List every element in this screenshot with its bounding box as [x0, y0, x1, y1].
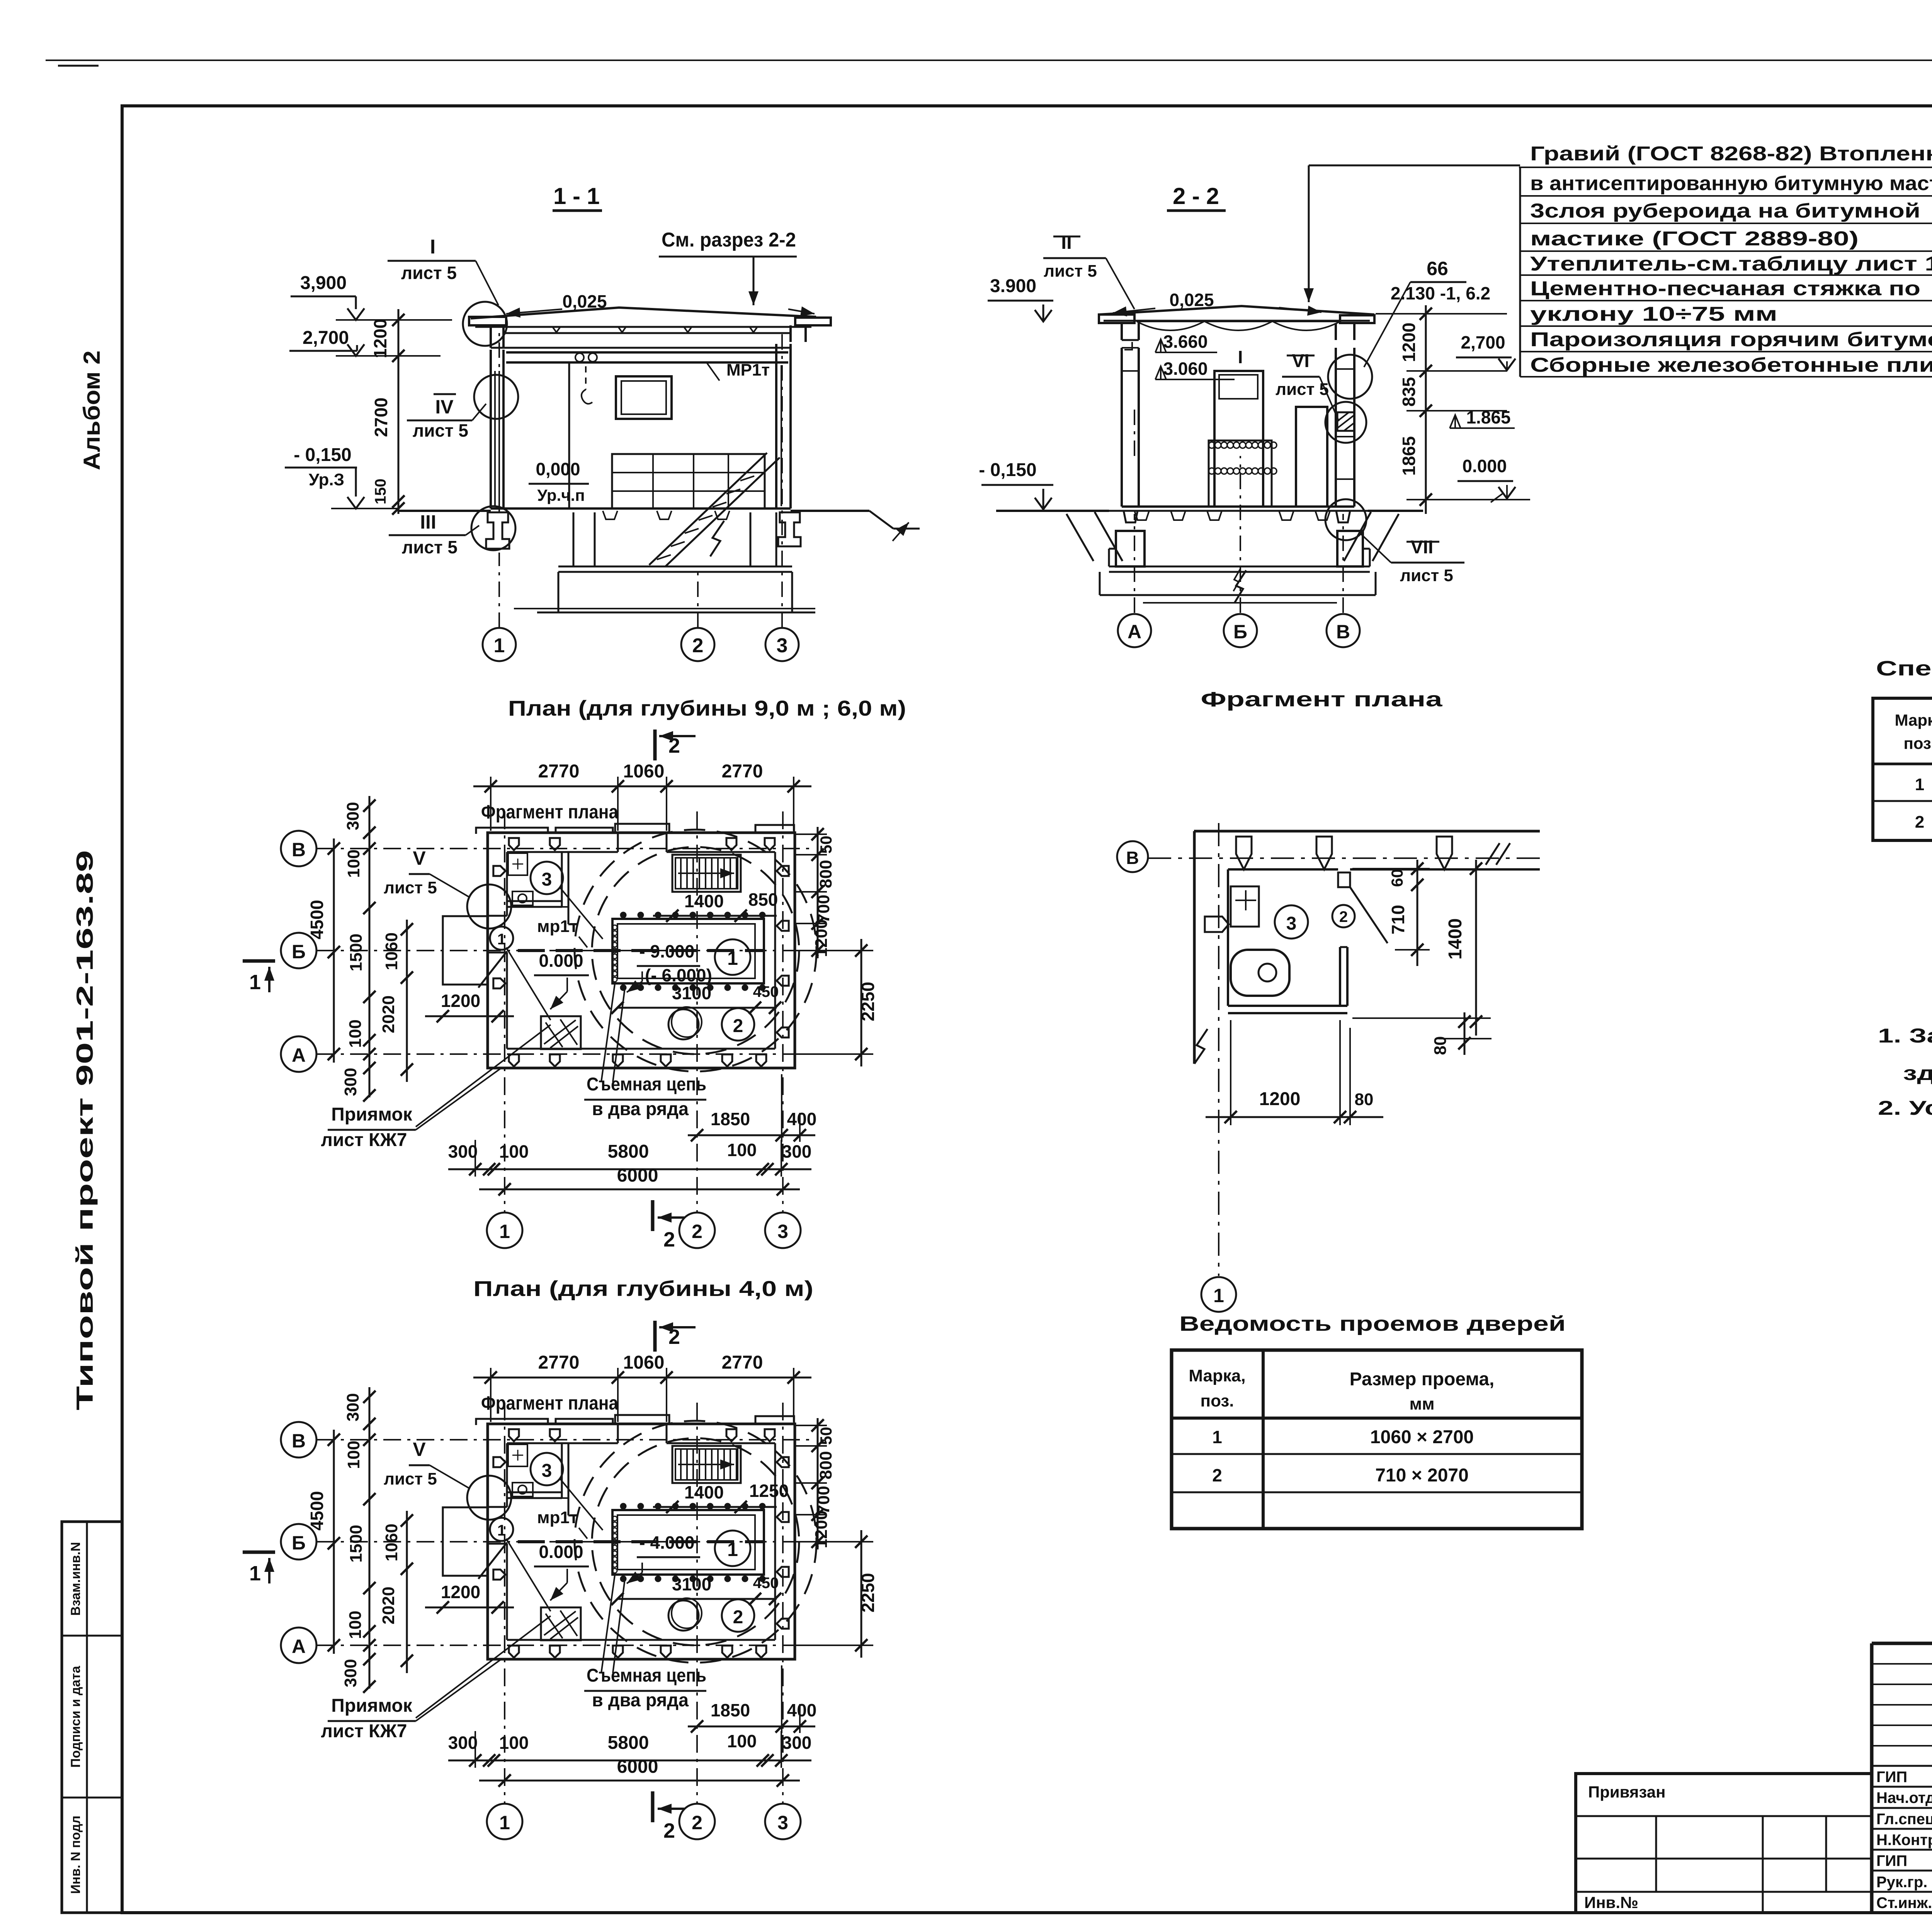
plan1 pit bolts top	[621, 912, 626, 918]
plan1 electro box	[541, 1016, 581, 1049]
svg-text:мм: мм	[1409, 1395, 1434, 1413]
svg-text:Утеплитель-см.таблицу лист 1: Утеплитель-см.таблицу лист 1	[1530, 253, 1932, 275]
plan2 door 1 leaf	[478, 1543, 507, 1579]
s11 basement ground	[514, 608, 815, 609]
svg-text:300: 300	[448, 1733, 478, 1753]
svg-text:лист КЖ7: лист КЖ7	[321, 1721, 407, 1742]
svg-text:1200: 1200	[812, 919, 831, 957]
svg-text:1850: 1850	[711, 1700, 750, 1720]
frag axis V	[1148, 857, 1540, 859]
plan2 cabin partition	[561, 1443, 563, 1498]
plan2 shaft circle outer	[575, 1421, 816, 1663]
svg-text:1250: 1250	[749, 1481, 789, 1501]
s22 pit bottom	[1109, 566, 1370, 568]
svg-text:Спецификация элементов запол: Спецификация элементов заполнения дверны…	[1876, 657, 1932, 680]
plan1 door 1 leaf	[478, 951, 507, 988]
frag dim ext bottom	[1230, 1020, 1231, 1125]
plan2 room circle 3	[531, 1453, 563, 1485]
roof layers note rule 5	[1520, 274, 1932, 276]
svg-text:Ст.инж.: Ст.инж.	[1876, 1895, 1932, 1912]
s11 window	[616, 376, 672, 419]
plan1 dim bottom ext	[474, 1140, 476, 1177]
svg-text:2,700: 2,700	[303, 328, 349, 348]
svg-text:2250: 2250	[858, 1573, 878, 1612]
svg-text:2: 2	[1212, 1465, 1222, 1485]
s11 callout circle I	[463, 302, 507, 346]
s22 leader 66	[1364, 282, 1410, 367]
frag cabin partition	[1339, 947, 1341, 1006]
plan2 manhole	[668, 1600, 699, 1631]
plan1 chain leader	[601, 981, 615, 1082]
svg-text:Б: Б	[292, 941, 306, 963]
svg-text:2: 2	[692, 1812, 702, 1833]
svg-text:МР1т: МР1т	[726, 361, 770, 379]
svg-text:в два ряда: в два ряда	[592, 1690, 689, 1711]
svg-text:1: 1	[497, 931, 506, 948]
plan1 top door jambs	[617, 833, 619, 852]
plan1 sink	[508, 853, 527, 875]
svg-text:в два ряда: в два ряда	[592, 1099, 689, 1119]
s11 roof drip notches	[553, 327, 560, 332]
frag axis circle V	[1117, 841, 1148, 872]
plan1 axis V line	[317, 848, 811, 849]
plan1 axis circle 1	[487, 1213, 522, 1248]
svg-text:3: 3	[542, 1461, 552, 1481]
svg-text:Инв.№: Инв.№	[1584, 1893, 1638, 1912]
svg-text:См. разрез 2-2: См. разрез 2-2	[662, 229, 796, 251]
plan1 dim 1850 ext	[781, 1074, 782, 1142]
svg-text:1200: 1200	[1259, 1089, 1301, 1109]
s11 ceiling slab	[503, 332, 791, 334]
plan2 vent mark bottom x1882	[722, 1646, 732, 1658]
s22 left overhang	[1099, 315, 1134, 323]
s22 axis line A	[1134, 514, 1135, 613]
plan1 porch	[443, 916, 488, 985]
svg-text:2770: 2770	[722, 1352, 763, 1373]
frag left wall break	[1194, 1029, 1207, 1064]
plan2 dim 1850 line	[688, 1726, 815, 1728]
plan1 axis A line	[317, 1053, 811, 1055]
plan1 stair inner	[675, 858, 738, 889]
svg-text:Ведомость проемов дверей: Ведомость проемов дверей	[1179, 1312, 1566, 1335]
svg-text:1. За условную отметку 0,000: 1. За условную отметку 0,000 принят уров…	[1878, 1025, 1932, 1047]
svg-text:Приямок: Приямок	[331, 1104, 413, 1125]
svg-text:3: 3	[542, 869, 552, 890]
plan1 pit outer	[612, 919, 764, 983]
plan2 cut flag 1 left	[243, 1551, 275, 1554]
plan1 fragment bracket	[476, 828, 548, 834]
svg-text:400: 400	[787, 1109, 817, 1129]
scan top edge line	[46, 60, 1932, 61]
plan1 dim top ext	[490, 777, 492, 831]
svg-text:1: 1	[497, 1522, 506, 1539]
svg-text:VII: VII	[1411, 537, 1434, 558]
s11 pit right wall	[750, 512, 752, 566]
svg-text:1060: 1060	[382, 1524, 401, 1561]
frag dim 710/60 line	[1417, 860, 1418, 966]
svg-text:450: 450	[753, 983, 779, 1000]
svg-text:Привязан: Привязан	[1588, 1783, 1665, 1801]
svg-text:2: 2	[1915, 813, 1924, 832]
plan2 cut flag 2 bottom	[651, 1791, 655, 1822]
frag axis circle 1	[1201, 1277, 1236, 1312]
s22 ground line right	[1368, 510, 1423, 512]
svg-text:поз.: поз.	[1903, 734, 1932, 752]
svg-text:300: 300	[341, 1659, 360, 1687]
svg-text:710: 710	[1388, 905, 1408, 935]
svg-text:2020: 2020	[379, 1587, 398, 1624]
plan1 hatch leader from 3	[560, 888, 603, 939]
plan2 fragment bracket	[476, 1419, 548, 1425]
s22 level 3660	[1155, 339, 1166, 352]
svg-text:3: 3	[777, 1221, 788, 1242]
svg-text:мр1т: мр1т	[537, 1508, 578, 1527]
svg-text:5800: 5800	[608, 1733, 649, 1753]
plan2 inner wall bottom	[507, 1639, 775, 1641]
roof layers note rule 3	[1520, 223, 1932, 224]
svg-text:1: 1	[499, 1812, 510, 1833]
frag room 3	[1275, 905, 1308, 939]
plan1 top right protrusion	[755, 825, 794, 833]
plan2 toilet	[512, 1483, 533, 1497]
svg-text:1060: 1060	[623, 761, 665, 782]
plan1 vent mark top x1893	[726, 838, 736, 850]
svg-text:Съемная цепь: Съемная цепь	[587, 1074, 706, 1095]
frag vent mark left	[1205, 917, 1229, 932]
plan2 vent mark bottom x1970	[756, 1646, 766, 1658]
plan2 monorail	[518, 1540, 764, 1543]
s11 right wall	[775, 344, 777, 509]
frag wall break right	[1486, 843, 1510, 865]
svg-text:3,900: 3,900	[300, 273, 347, 293]
svg-text:2: 2	[733, 1607, 743, 1628]
plan1 vent mark right y2254	[777, 866, 789, 876]
svg-text:1850: 1850	[711, 1109, 750, 1129]
s11 callout circle IV	[474, 375, 518, 419]
svg-text:Съемная цепь: Съемная цепь	[587, 1665, 706, 1686]
s22 base bottom	[1100, 594, 1376, 596]
svg-text:80: 80	[1355, 1090, 1374, 1109]
roof layers note rule 7	[1520, 325, 1932, 327]
s11 hoist chain	[585, 366, 587, 389]
s11 floor line	[491, 507, 791, 510]
plan1 vent mark bottom x1599	[613, 1054, 623, 1066]
svg-text:5800: 5800	[608, 1141, 649, 1162]
s11 roof bottom	[475, 326, 811, 328]
svg-text:в антисептированную битумную м: в антисептированную битумную мастику-10	[1530, 172, 1932, 195]
svg-text:В: В	[292, 839, 306, 861]
plan1 vent mark left 1	[493, 866, 505, 876]
roof layers note rule 6	[1520, 300, 1932, 301]
plan2 porch	[443, 1507, 488, 1576]
s22 ground line left	[996, 510, 1109, 512]
s22 level 1865	[1450, 415, 1461, 428]
svg-text:Н.Контр: Н.Контр	[1876, 1832, 1932, 1849]
frag dim 1200 line	[1206, 1116, 1383, 1118]
svg-text:2250: 2250	[858, 982, 878, 1021]
plan2 axis 3 line	[782, 1403, 784, 1803]
plan2 hatch leader from 3	[560, 1479, 603, 1530]
plan2 vent mark top x1436	[550, 1429, 560, 1441]
title block outer	[1872, 1643, 1932, 1913]
s22 ground slab	[1109, 510, 1368, 512]
svg-text:(- 6.000): (- 6.000)	[645, 965, 712, 985]
plan1 pit bolts bottom	[621, 985, 626, 990]
vedomost col line	[1262, 1350, 1265, 1529]
s11 axis line 2	[697, 568, 699, 628]
svg-text:ГИП: ГИП	[1876, 1769, 1907, 1786]
svg-text:I: I	[1238, 347, 1243, 367]
roof note leader	[1309, 165, 1520, 167]
plan1 dim left line 3	[406, 920, 408, 1082]
s11 base slab	[558, 572, 560, 612]
plan2 vent mark right y2672	[777, 1619, 789, 1629]
svg-text:1200: 1200	[441, 1582, 480, 1602]
svg-text:II: II	[1061, 231, 1072, 253]
svg-text:Рук.гр.: Рук.гр.	[1876, 1874, 1927, 1891]
svg-text:3: 3	[1286, 913, 1297, 934]
svg-text:50: 50	[817, 1427, 835, 1445]
title block pривязан box	[1576, 1774, 1872, 1913]
s11 ladder break mark	[710, 521, 724, 556]
svg-text:лист КЖ7: лист КЖ7	[321, 1130, 407, 1150]
svg-text:Б: Б	[1233, 621, 1247, 643]
frag top wall inner	[1228, 868, 1338, 871]
s22 foundation right	[1337, 531, 1363, 566]
svg-text:Приямок: Приямок	[331, 1696, 413, 1716]
svg-text:План (для глубины 9,0 м ; 6,0: План (для глубины 9,0 м ; 6,0 м)	[508, 696, 906, 720]
svg-text:0.000: 0.000	[1462, 456, 1507, 476]
s22 door	[1296, 407, 1327, 507]
svg-text:1 - 1: 1 - 1	[553, 183, 600, 209]
svg-text:2: 2	[692, 634, 704, 657]
svg-text:Фрагмент плана: Фрагмент плана	[481, 1392, 619, 1414]
specification table frame	[1873, 698, 1932, 840]
plan1 cut flag 1 left	[243, 959, 275, 963]
plan2 vent mark right y2254	[777, 1457, 789, 1467]
svg-text:0,000: 0,000	[536, 459, 580, 479]
plan1 dim 1850 line	[688, 1134, 815, 1136]
plan1 axis circle B	[281, 933, 316, 968]
svg-text:1: 1	[499, 1221, 510, 1242]
svg-text:1: 1	[494, 634, 505, 657]
plan2 inner wall right	[774, 1443, 776, 1640]
s22 bank right	[1344, 512, 1371, 561]
svg-text:лист 5: лист 5	[384, 878, 437, 897]
s11 crane beam	[506, 351, 788, 354]
s22 left foot tee	[1124, 511, 1138, 522]
frag dim ext right	[1352, 1017, 1491, 1019]
svg-text:Марка,: Марка,	[1189, 1366, 1245, 1385]
plan2 dim left line 1	[333, 1430, 335, 1654]
plan1 priyamok leader	[416, 1025, 551, 1127]
svg-text:3: 3	[777, 1812, 788, 1833]
frag vent mark top 2	[1316, 837, 1332, 869]
svg-text:0.000: 0.000	[539, 1542, 583, 1562]
plan1 vent mark left 2	[493, 978, 505, 988]
plan1 machine circle 1	[715, 939, 750, 975]
s11 axis line 3	[781, 332, 783, 628]
svg-text:1500: 1500	[347, 934, 366, 971]
plan2 stair inner	[675, 1449, 738, 1480]
plan2 dim 3100 line	[617, 1598, 777, 1600]
svg-text:А: А	[292, 1636, 306, 1657]
svg-text:1060 × 2700: 1060 × 2700	[1370, 1427, 1474, 1447]
plan1 dim right line 2	[861, 939, 862, 1066]
svg-text:Марка: Марка	[1895, 711, 1932, 729]
svg-text:1: 1	[249, 971, 261, 994]
tb col lines	[1871, 1643, 1873, 1913]
plan1 dim 3100 line	[617, 1007, 777, 1009]
s22 floor feet	[1134, 511, 1149, 520]
plan2 axis 1 line	[504, 1403, 505, 1803]
svg-text:1500: 1500	[347, 1525, 366, 1563]
plan1 axis 3 line	[782, 811, 784, 1212]
svg-text:3100: 3100	[672, 1574, 711, 1594]
s11 equipment block	[612, 454, 765, 509]
s22 right wall	[1335, 348, 1337, 507]
svg-text:Размер проема,: Размер проема,	[1350, 1369, 1495, 1389]
roof layers note rule 2	[1520, 195, 1932, 197]
svg-text:- 9.000: - 9.000	[639, 941, 694, 961]
s22 axis line B	[1240, 456, 1241, 613]
plan2 dim bottom ext	[474, 1731, 476, 1768]
roof layers note rule 9	[1520, 376, 1932, 378]
plan2 door 1 leader	[506, 1539, 551, 1611]
svg-text:2020: 2020	[379, 995, 398, 1033]
svg-text:1: 1	[727, 1539, 738, 1560]
s22 slope arrow right	[1279, 308, 1321, 312]
plan1 dim right line 1	[817, 827, 819, 958]
svg-text:здания, что соответствует абс: здания, что соответствует абсолютной отм…	[1903, 1062, 1932, 1085]
plan2 axis A line	[317, 1645, 811, 1646]
plan1 vent mark bottom x1436	[550, 1054, 560, 1066]
plan1 vent mark right y2538	[777, 976, 789, 986]
svg-text:1060: 1060	[623, 1352, 665, 1373]
svg-text:850: 850	[748, 889, 778, 910]
s22 roof bottom	[1104, 320, 1370, 322]
plan2 dim right ticks 1	[811, 1419, 824, 1432]
s11 slope arrow right	[788, 309, 815, 314]
svg-text:лист 5: лист 5	[1044, 262, 1097, 281]
plan1 cut flag 2 bottom	[651, 1200, 655, 1231]
frag toilet	[1231, 950, 1289, 996]
vedomost row rule 2	[1172, 1492, 1582, 1493]
svg-text:мастике (ГОСТ 2889-80): мастике (ГОСТ 2889-80)	[1530, 228, 1859, 250]
svg-text:В: В	[292, 1430, 306, 1452]
s22 dim ext lines	[1376, 313, 1507, 315]
svg-text:0,025: 0,025	[1169, 290, 1214, 310]
frag door jamb	[1338, 872, 1350, 887]
vedomost header rule	[1172, 1417, 1582, 1420]
svg-text:Ур.З: Ур.З	[309, 470, 344, 489]
s22 slope arrow left	[1113, 308, 1155, 313]
frag vent mark top 3	[1437, 837, 1452, 869]
plan1 toilet	[512, 891, 533, 905]
s22 foundation left	[1116, 531, 1145, 566]
plan1 cabin wall bottom	[507, 900, 562, 902]
svg-text:А: А	[1128, 621, 1141, 643]
svg-text:4500: 4500	[307, 1491, 327, 1531]
frag left wall inner	[1227, 869, 1229, 1006]
s22 dim line vertical	[1425, 305, 1427, 514]
svg-text:1200: 1200	[812, 1510, 831, 1548]
svg-text:710 × 2070: 710 × 2070	[1375, 1465, 1469, 1486]
svg-text:100: 100	[346, 1019, 365, 1048]
svg-text:1400: 1400	[1445, 918, 1466, 960]
svg-text:План (для глубины 4,0 м): План (для глубины 4,0 м)	[473, 1276, 813, 1301]
plan2 vent mark top x1893	[726, 1429, 736, 1441]
plan2 pit chain left	[612, 1516, 617, 1521]
plan2 dim top ticks	[485, 1371, 497, 1384]
svg-text:1400: 1400	[684, 891, 724, 911]
plan1 dim right ext	[796, 833, 827, 835]
s22 axis circle A	[1118, 614, 1151, 647]
roof layers note block left edge	[1519, 167, 1521, 377]
plan2 dim top line	[473, 1377, 811, 1379]
svg-text:66: 66	[1427, 258, 1448, 279]
svg-text:3100: 3100	[672, 983, 711, 1003]
s11 axis circle 1	[483, 628, 516, 661]
svg-text:1: 1	[1212, 1427, 1222, 1447]
plan2 vent mark right y2396	[777, 1512, 789, 1522]
plan1 inner wall left	[506, 852, 508, 916]
s11 right footing	[778, 512, 801, 546]
s22 left wall	[1121, 348, 1123, 507]
plan1 inner wall right	[774, 852, 776, 1049]
s22 roof vaults	[1137, 321, 1204, 330]
s11 axis circle 3	[765, 628, 799, 661]
plan1 vent mark top x1436	[550, 838, 560, 850]
privyazan row lines	[1576, 1815, 1872, 1817]
svg-text:450: 450	[753, 1575, 779, 1592]
svg-text:1.865: 1.865	[1466, 407, 1510, 427]
svg-text:Б: Б	[292, 1532, 306, 1554]
plan2 vent mark left 1	[493, 1457, 505, 1467]
plan1 axis circle 2	[679, 1213, 715, 1248]
plan2 left door jambs	[488, 1506, 507, 1508]
frag cabin wall bottom	[1228, 1005, 1347, 1007]
frag vent mark top 1	[1236, 837, 1252, 869]
s11 left parapet	[469, 317, 506, 325]
svg-text:2: 2	[733, 1016, 743, 1036]
plan2 shaft circle inner	[592, 1438, 799, 1645]
plan1 monorail	[518, 949, 764, 952]
s22 roof vault line	[1137, 321, 1340, 322]
plan2 axis circle 2	[679, 1804, 715, 1839]
s22 vent shaft	[1214, 371, 1263, 507]
plan1 dim bottom ticks	[469, 1163, 481, 1175]
s22 dim ticks	[1420, 308, 1432, 320]
plan2 cut flag 2 top	[653, 1321, 657, 1352]
svg-text:А: А	[292, 1044, 306, 1066]
plan1 outer wall	[488, 833, 795, 1068]
plan1 pit chain left	[612, 925, 617, 930]
svg-text:300: 300	[344, 1393, 362, 1421]
see section 2-2 arrow	[753, 257, 755, 305]
s11 ground line left	[398, 510, 491, 512]
svg-text:2: 2	[692, 1221, 702, 1242]
svg-text:Подписи и дата: Подписи и дата	[68, 1665, 83, 1768]
privyazan col lines	[1655, 1816, 1657, 1892]
stamp column box	[62, 1522, 122, 1913]
svg-text:Нач.отд: Нач.отд	[1876, 1789, 1932, 1806]
svg-text:VI: VI	[1292, 351, 1309, 371]
plan2 vent mark bottom x1436	[550, 1646, 560, 1658]
plan1 axis 2 line	[696, 811, 698, 1212]
svg-text:700: 700	[814, 895, 833, 923]
s22 callout circle hatch	[1325, 402, 1366, 443]
